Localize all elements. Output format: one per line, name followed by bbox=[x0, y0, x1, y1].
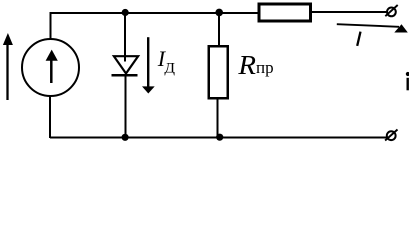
wire diode branch bottom bbox=[125, 76, 127, 139]
wire top horizontal left section bbox=[50, 12, 259, 14]
junction dot bottom-left node bbox=[122, 134, 129, 141]
diode VD cathode bar bbox=[112, 74, 138, 76]
photocurrent arrow outside (up, far left) bbox=[3, 33, 13, 100]
current source circle bbox=[22, 39, 79, 96]
svg-text:пр: пр bbox=[256, 58, 274, 77]
current source arrow (up) bbox=[46, 50, 58, 83]
output terminal bottom bbox=[385, 130, 397, 141]
junction dot bottom-right node bbox=[216, 134, 223, 141]
wire top horizontal right section bbox=[311, 11, 388, 13]
output terminal top bbox=[385, 5, 397, 16]
label I_D (diode current) bbox=[157, 46, 175, 77]
diode VD triangle bbox=[114, 56, 138, 73]
svg-text:Д: Д bbox=[164, 61, 175, 77]
resistor R_pr body bbox=[209, 46, 228, 98]
wire diode branch top bbox=[124, 13, 126, 62]
diode current arrow (down) bbox=[142, 37, 155, 93]
junction dot top-left node bbox=[122, 9, 129, 16]
load current arrow I (top right) bbox=[337, 24, 408, 32]
wire current source bottom stub bbox=[49, 97, 51, 139]
junction dot top-right node bbox=[215, 9, 223, 17]
series resistor body (top right) bbox=[259, 4, 310, 21]
wire bottom horizontal bbox=[50, 136, 387, 138]
label fragment clipped at right edge (partial glyph, dot + stem) bbox=[406, 72, 409, 90]
label R_pr bbox=[237, 50, 273, 80]
wire R_pr branch top bbox=[218, 12, 220, 46]
label I (load current) bbox=[357, 32, 360, 46]
svg-text:R: R bbox=[237, 50, 256, 80]
wire top-left vertical drop to current source bbox=[49, 12, 51, 39]
wire R_pr branch bottom bbox=[216, 99, 218, 139]
